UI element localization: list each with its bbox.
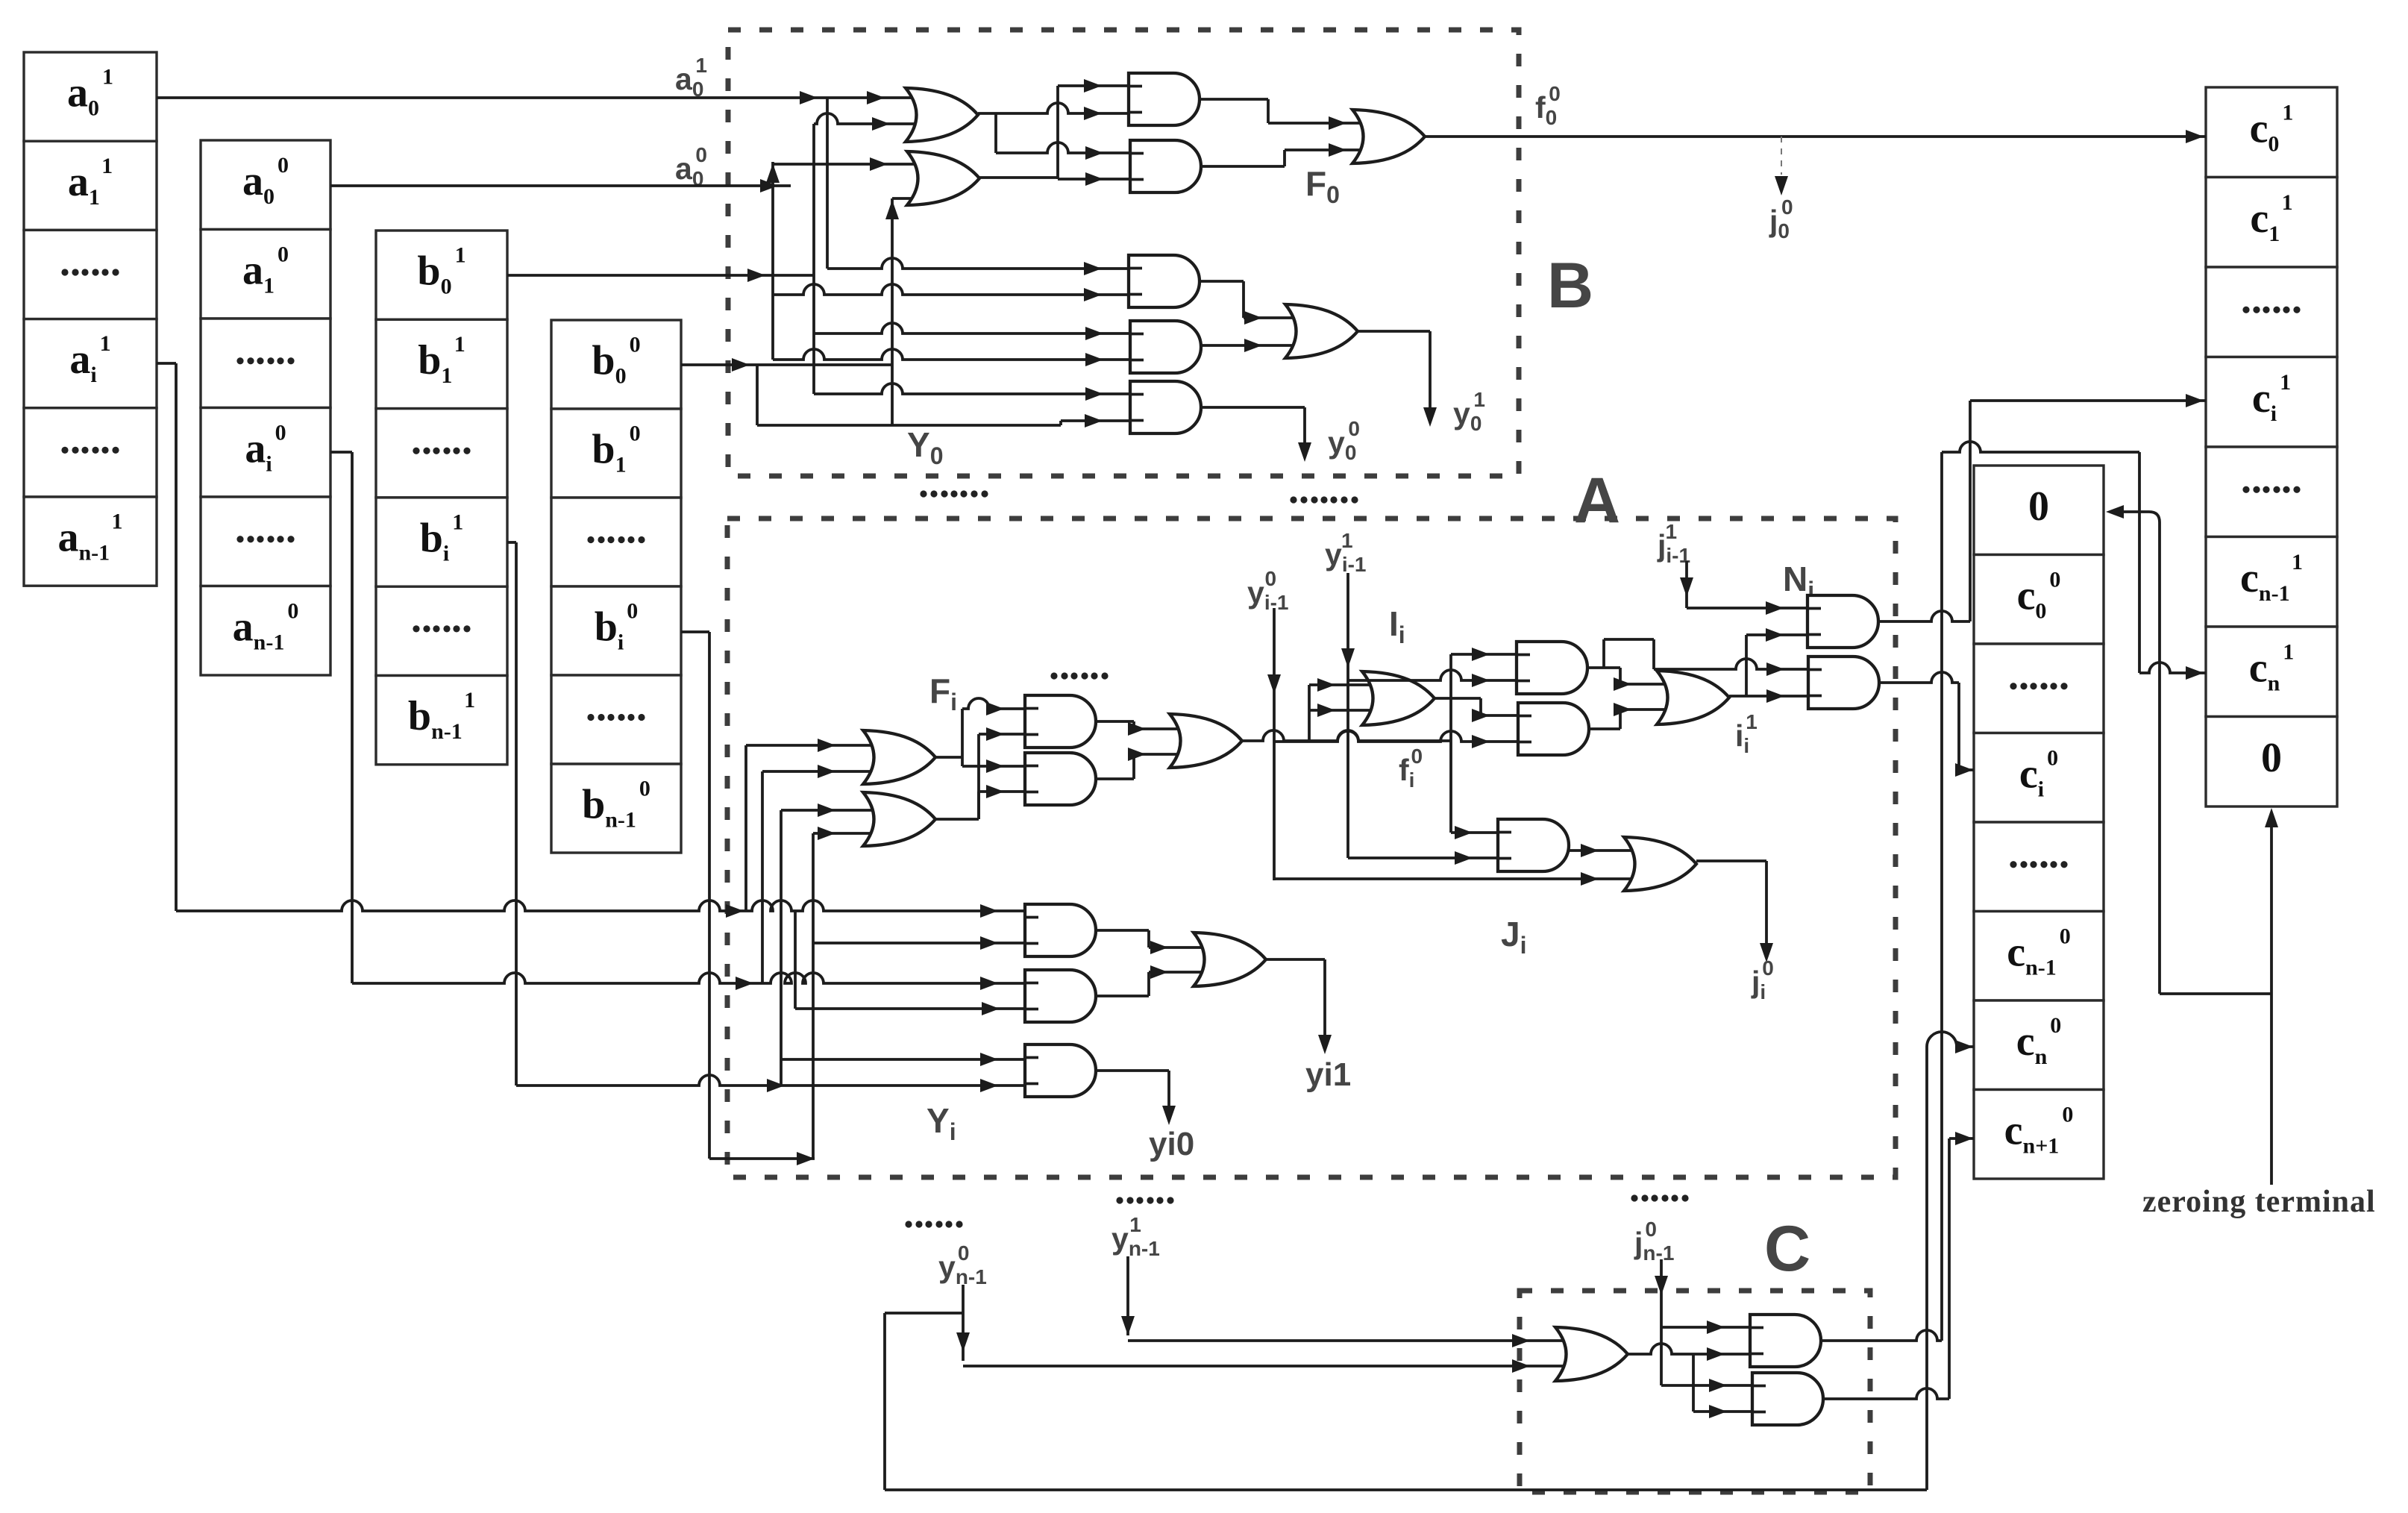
and-gate C1: [1750, 1315, 1821, 1367]
wire snake to AND N2 input1: [1602, 639, 1605, 668]
wire ai^1 from register down and into A: [157, 362, 176, 365]
wire jn-1^0 to AND C1 input1: [1661, 1326, 1750, 1329]
wire a0^0 from register into block B: [330, 184, 791, 187]
wire b0^1 from register to block B: [507, 274, 814, 277]
drop ji-1^1 to AND N1: [1685, 561, 1688, 608]
riser ai^1 to OR F1 input1: [744, 745, 747, 911]
wire bi^0 from register down into A: [681, 630, 709, 633]
wire N2 output to ci^0: [1879, 672, 1959, 683]
wire ji^0 output: [1696, 859, 1766, 862]
wire b0^0 drop to Y0 AND5 feed: [756, 365, 759, 425]
riser to OR I1 inputs: [1308, 685, 1311, 741]
drop ai^1 to Yi AND2 input2: [794, 911, 797, 1009]
wire yn-1^0 drop to OR C input2: [962, 1285, 965, 1361]
register column c^1: [2206, 87, 2337, 178]
wire AND B1 output to OR B3 input1: [1200, 98, 1268, 101]
wire AND B4 out to OR B4: [1201, 344, 1306, 347]
wire Y0 lower feed line: [757, 424, 1061, 427]
wire N1 output to ci^1: [1878, 611, 1970, 621]
dashed block A boundary: [727, 519, 1896, 1177]
wire bi^0 into bus: [709, 1157, 815, 1160]
and-gate J: [1498, 819, 1569, 871]
wire ai^1 horizontal into Yi AND1: [176, 900, 1025, 911]
and-gate Ib: [1518, 703, 1589, 755]
and-gate Y1: [1025, 904, 1096, 956]
and-gate B3 (Y0 group): [1129, 255, 1200, 307]
wire a0^1 from register to OR B1: [157, 96, 928, 99]
register column a^0: [201, 140, 330, 230]
or-gate C: [1555, 1327, 1628, 1381]
dots above AND F1: [1050, 672, 1057, 679]
wire bi^1 horizontal into Yi AND3 input2: [516, 1075, 1025, 1086]
wire OR F2 out to AND F1 in2 / AND F2 in2: [935, 818, 979, 821]
riser bi^1 to OR F2 input1: [780, 810, 783, 1086]
wire AND B5 output y0^0: [1201, 406, 1305, 409]
or-gate B1: [906, 88, 978, 142]
svg-text:zeroing terminal: zeroing terminal: [2142, 1185, 2376, 1219]
wire AND F2 out to OR F3: [1096, 777, 1134, 780]
dots below A middle: [1116, 1197, 1123, 1203]
svg-text:yi0: yi0: [1149, 1126, 1194, 1162]
wire AND B5 input1: [814, 383, 1130, 394]
wire bi^1 from register down and into A: [507, 541, 516, 544]
register column a^1: [24, 52, 157, 141]
wire ai^0 from register down and into A: [330, 451, 352, 454]
wire a0^1 branch vertical to AND B3: [826, 98, 829, 269]
wire jn-1^0 drop into C: [1660, 1259, 1663, 1327]
wire bottom bus riser to c_n^0: [1925, 1047, 1928, 1490]
wire jn-1^0 to AND C2 input1: [1660, 1327, 1663, 1385]
bus to Yi AND1 input2: [813, 942, 1025, 945]
wire OR C branch to AND C2 input2: [1692, 1354, 1695, 1412]
riser to AND B1 input1 and AND B2 input2: [1056, 86, 1059, 179]
wire AND Ib out to OR I2: [1589, 727, 1620, 730]
and-gate B4 (Y0 group): [1130, 321, 1201, 373]
or-gate B3 output F0: [1352, 110, 1425, 163]
wire yi-1^1 to AND Ia input2: [1348, 670, 1517, 680]
or-gate F3: [1170, 714, 1242, 768]
wire a0^0 bus vertical: [771, 162, 774, 360]
wire zeroing terminal to c^0 zero box: [2158, 522, 2161, 994]
vertical distribution at OR I1 output: [1449, 654, 1452, 833]
wire yn-1^1 drop to OR C input1: [1126, 1256, 1129, 1335]
and-gate Y3: [1025, 1044, 1096, 1097]
wire AND J out to OR J input1: [1569, 849, 1645, 852]
wire AND B3 input1 from a0^1: [827, 258, 1129, 269]
wire b0^0 from register to block B: [681, 363, 892, 366]
or-gate I1 (Ii): [1362, 671, 1435, 725]
wire OR F1 out to AND F1 in1 / AND F2 in1: [935, 756, 962, 759]
dashed block B boundary: [728, 30, 1519, 476]
register column c^0: [1974, 466, 2104, 555]
wire bottom bus riser: [883, 1313, 886, 1490]
wire zeroing terminal to c^1 zero box: [2270, 818, 2273, 1185]
wire f0^0 long line to register c0^1: [1425, 135, 2206, 138]
wire AND Y1 out to OR Y: [1096, 929, 1149, 932]
register column b^1: [376, 231, 507, 319]
branch bi^1 riser to Yi AND3 input1: [781, 1058, 1025, 1061]
svg-text:0: 0: [2028, 483, 2049, 530]
svg-text:yi1: yi1: [1305, 1056, 1351, 1093]
wire AND B4 input1 from b0^1: [814, 323, 1130, 333]
dots between block B and A left: [920, 490, 926, 497]
wire OR I1 output: [1435, 697, 1481, 700]
wire OR C out to AND C1 input2: [1628, 1344, 1750, 1354]
wire OR B1 output branch down to AND B2 input1: [994, 113, 997, 153]
and-gate Y2: [1025, 970, 1096, 1022]
dots above jn-1^0: [1631, 1194, 1637, 1201]
svg-text:C: C: [1764, 1213, 1810, 1285]
wire AND B2 output to OR B3 input2: [1201, 165, 1285, 168]
wire yi-1^1 bottom to AND J input2: [1348, 856, 1498, 859]
wire yi-1^0 bottom to OR J input2: [1274, 877, 1645, 880]
wire yi-1^0 to AND Ib input2: [1274, 731, 1518, 742]
and-gate B1: [1129, 73, 1200, 125]
wire AND C1 output to c_n^1 via top: [1821, 1330, 1942, 1341]
wire b0^1 bus vertical: [812, 124, 815, 394]
dashed block C boundary: [1520, 1291, 1870, 1492]
register column b^0: [551, 320, 681, 409]
wire AND C2 output to c_n+1^0: [1823, 1388, 1949, 1399]
dashed stub j0^0: [1781, 137, 1782, 175]
and-gate C2: [1752, 1373, 1823, 1425]
wire riser to OR B2 input 2: [891, 198, 894, 425]
or-gate B2: [907, 151, 979, 205]
wire fi line from OR F3 to Ii area: [1242, 730, 1451, 741]
dots between block B and A right: [1290, 496, 1297, 503]
wire AND F1 out to OR F3: [1096, 720, 1134, 723]
svg-text:A: A: [1574, 465, 1620, 536]
wire y0^1 output: [1358, 330, 1430, 333]
and-gate F2: [1025, 753, 1096, 805]
and-gate F1: [1025, 695, 1096, 748]
bus bi^0 vertical: [812, 833, 815, 1159]
or-gate B4 (Y0): [1285, 304, 1358, 358]
or-gate I2 (ii^1): [1657, 671, 1729, 724]
wire to AND Ia input1: [1451, 653, 1517, 656]
wire ai^0 horizontal into Yi AND2: [352, 973, 1025, 983]
dots below A left: [905, 1221, 912, 1227]
wire AND B3 input2 from a0^0: [773, 284, 1129, 295]
wire yi1 output: [1266, 958, 1325, 961]
svg-text:B: B: [1547, 250, 1593, 322]
drop yi-1^1: [1346, 573, 1349, 858]
wire to AND Ib input1: [1481, 714, 1518, 717]
and-gate Ia: [1517, 642, 1587, 694]
wire zeroing terminal L connection: [2160, 992, 2271, 995]
and-gate B2: [1130, 140, 1201, 192]
bus to OR F2 input2: [813, 832, 884, 835]
or-gate J: [1624, 837, 1696, 891]
svg-text:0: 0: [2261, 735, 2282, 781]
wire AND Ia out to OR I2: [1587, 666, 1620, 669]
or-gate F1: [863, 730, 935, 784]
and-gate N1: [1807, 595, 1878, 648]
riser ai^0 to OR F1 input2: [761, 771, 764, 983]
or-gate F2: [863, 792, 935, 846]
wire bottom bus to c_n^0 riser: [885, 1488, 1927, 1491]
wire AND B3 out to OR B4: [1200, 280, 1244, 283]
wire AND Y3 output yi0: [1096, 1069, 1169, 1072]
wire OR B1 output to AND B1 input2: [978, 103, 1129, 113]
drop yi-1^0: [1273, 608, 1276, 880]
wire AND Y2 out to OR Y: [1096, 994, 1149, 997]
wire branch down to AND J input1: [1451, 831, 1498, 834]
and-gate B5 (Y0 group): [1130, 381, 1201, 433]
wire b0^1 riser to OR B1 input 2: [814, 113, 928, 124]
wire AND B4 input2: [773, 349, 1130, 360]
and-gate N2: [1808, 657, 1879, 709]
wire ii^1 to AND N2 input2 and branch to AND N1 input2: [1729, 695, 1808, 698]
wire OR B2 output to riser: [979, 176, 1058, 179]
or-gate Y: [1194, 933, 1266, 986]
wire stub to OR B2 input 1: [773, 163, 929, 166]
